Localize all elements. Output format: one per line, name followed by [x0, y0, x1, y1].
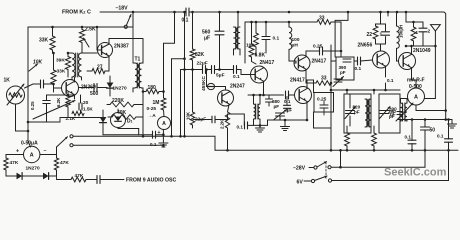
switch S1 to -18V [127, 15, 132, 26]
wire IF2 top [253, 95, 255, 104]
rheostat 1K arrow [7, 84, 24, 105]
transformer output [401, 103, 403, 121]
ground detector [284, 120, 286, 126]
wire bias top [47, 94, 75, 96]
capacitor 0.25 first [320, 47, 323, 55]
transformer IF2 [254, 104, 256, 119]
svg-text:50: 50 [430, 128, 436, 134]
transistor Q3 2N417 [251, 66, 268, 83]
svg-text:1.5K: 1.5K [83, 107, 93, 112]
wire 47k to cap [86, 179, 97, 181]
transistor Q5 2N247 [218, 90, 234, 106]
wire shield box IF1 [245, 22, 289, 63]
wire IF2 bottom [253, 119, 255, 125]
svg-text:0.1: 0.1 [405, 135, 412, 140]
svg-text:pF: pF [274, 104, 280, 109]
wire vertical x313 [313, 80, 315, 93]
wire box 0.25 shield [314, 93, 334, 113]
capacitor 0.1 IF coupling [234, 66, 237, 74]
transistor Q2 2N369 [62, 80, 79, 97]
svg-text:33K: 33K [57, 69, 66, 75]
ground IF2 bottom [259, 125, 261, 127]
svg-text:5μF: 5μF [216, 73, 225, 79]
svg-text:pF: pF [354, 110, 360, 115]
wire 2N387 base feed [97, 27, 102, 50]
antenna [431, 25, 441, 31]
wire Q8 collector [406, 46, 412, 55]
capacitor 0.1 detector [245, 122, 248, 129]
svg-text:220K: 220K [112, 98, 124, 104]
capacitor 2 [419, 28, 427, 32]
capacitor 390pF first [343, 59, 351, 62]
svg-text:22μF: 22μF [197, 61, 208, 67]
wire x425 down [424, 150, 426, 167]
wiper arrow of 2.5K [84, 38, 90, 47]
svg-text:180: 180 [148, 85, 157, 91]
svg-text:1N270: 1N270 [26, 166, 40, 172]
transformer IF3 [365, 99, 369, 127]
wire feed 174.5 to 180 node [164, 12, 175, 92]
resistor 6.8K [249, 44, 254, 57]
svg-text:10K: 10K [33, 60, 43, 66]
resistor 6.2K [66, 96, 70, 107]
svg-text:500: 500 [90, 91, 99, 97]
wire can feed A [335, 12, 348, 57]
capacitor 560uF [219, 12, 221, 31]
svg-text:A: A [162, 121, 166, 127]
wire shelf y22 right [289, 21, 317, 23]
svg-text:+: + [16, 149, 19, 155]
wire x331 to caps [331, 60, 336, 62]
svg-text:0.25: 0.25 [30, 101, 35, 110]
wire 6V to right [332, 150, 449, 180]
trimmer below 390 box [334, 79, 342, 82]
svg-text:10K: 10K [186, 111, 191, 120]
wire Q7 emitter [385, 66, 387, 77]
svg-text:2N387: 2N387 [114, 44, 129, 50]
wiper arrow 10K [29, 64, 38, 71]
svg-text:47K: 47K [75, 173, 84, 179]
wire 2N369 emitter [74, 95, 76, 99]
wire meter M2 bottom [416, 105, 446, 111]
wire r1 loop [406, 22, 414, 27]
capacitor 0.1 to Q7 [358, 57, 361, 65]
capacitor osc coupling [41, 80, 44, 88]
wire bias cluster bottom [28, 118, 103, 123]
wire Q4 base [294, 61, 296, 63]
diode 1N270 first [107, 83, 114, 89]
wire detector link [228, 114, 245, 125]
wire detector lower [248, 124, 268, 126]
diode 1N270 left [17, 173, 23, 180]
svg-text:2N656: 2N656 [358, 43, 373, 49]
svg-text:20: 20 [83, 100, 89, 106]
wire Q5 emitter [228, 105, 230, 113]
svg-text:39K: 39K [56, 58, 65, 64]
svg-text:82K: 82K [195, 52, 205, 58]
wire Q4 collector [306, 51, 320, 57]
wire vertical x331 [330, 45, 332, 150]
capacitor 50 [424, 120, 426, 127]
switch 6V [304, 180, 311, 182]
capacitor 22uF coupling [203, 66, 206, 74]
trimmer capacitor detector [276, 113, 285, 116]
wire switch row 1 [73, 136, 215, 150]
ground under meter [162, 135, 164, 143]
svg-text:2N417: 2N417 [312, 59, 327, 65]
wire Q7 collector [380, 44, 382, 51]
svg-text:2N417: 2N417 [290, 78, 305, 84]
trimmer 820pF [346, 111, 355, 114]
svg-text:6V: 6V [297, 180, 304, 186]
resistor 33 top [317, 20, 331, 25]
resistor 82K [190, 49, 195, 60]
meter M3 0-50uA [24, 146, 40, 162]
wire 2N369 base [54, 87, 62, 89]
capacitor 680pF [266, 99, 273, 102]
resistor 220K [110, 102, 134, 107]
resistor 1M [161, 98, 166, 110]
svg-text:0.25: 0.25 [313, 44, 323, 50]
wire ground bus [215, 149, 458, 151]
svg-text:2.5K: 2.5K [85, 27, 96, 33]
wire box 820 [344, 94, 371, 133]
wire meter M3 left [6, 155, 24, 159]
resistor 100 [254, 33, 259, 47]
wire feed 171.5 branch [172, 59, 185, 137]
capacitor series Q6 base [286, 91, 289, 99]
wire top supply bus [100, 11, 186, 13]
svg-text:6.8K: 6.8K [255, 53, 266, 59]
wire -28V vertical [340, 150, 342, 167]
transformer T osc [72, 53, 75, 77]
svg-text:1K: 1K [4, 78, 11, 84]
svg-text:27: 27 [97, 65, 103, 71]
svg-text:0.1: 0.1 [150, 142, 157, 147]
svg-text:2.1K: 2.1K [66, 116, 76, 121]
wire Q6 emitter [306, 102, 308, 121]
diode 1N270 right [43, 173, 49, 180]
wiper arrow 1.5K pot [33, 101, 75, 120]
inductor 100uH first [289, 27, 292, 49]
svg-text:FROM 9 AUDIO OSC: FROM 9 AUDIO OSC [126, 178, 176, 184]
svg-text:0.1: 0.1 [437, 134, 444, 139]
capacitor 0.1 IF1 [262, 37, 270, 40]
transistor Q1 2N387 [98, 43, 113, 58]
svg-text:2N1049: 2N1049 [413, 48, 431, 54]
svg-text:0-25: 0-25 [147, 106, 157, 112]
svg-text:0.1: 0.1 [355, 66, 362, 72]
svg-text:2N247: 2N247 [230, 83, 245, 89]
wire -28V to junction [331, 166, 425, 168]
svg-text:6.2K: 6.2K [56, 97, 61, 107]
wire 22 cap loop [375, 24, 377, 26]
wire IF input bus [181, 69, 203, 71]
wire bottom right bus [398, 119, 452, 121]
capacitor 20 [79, 103, 82, 110]
resistor 39K [65, 57, 70, 70]
wire vertical feed x184.5 [184, 12, 186, 136]
ground right end [451, 120, 453, 124]
wire Q8 emitter [412, 68, 417, 89]
capacitor 500 [94, 84, 97, 92]
svg-text:0-50μA: 0-50μA [21, 140, 38, 146]
svg-text:→A: →A [148, 113, 157, 119]
node junction dots on top bus [132, 11, 135, 14]
wire vertical feed x180.5 [180, 70, 182, 137]
capacitor audio in [97, 176, 100, 184]
wire box 390 first [336, 57, 354, 80]
wire meter M3 right [40, 155, 57, 159]
svg-text:2N369: 2N369 [81, 85, 96, 91]
wire choke to Q4 base [289, 60, 296, 62]
svg-text:1N270: 1N270 [113, 86, 127, 92]
transformer IF1 [234, 27, 237, 49]
wire mid verticals [346, 90, 348, 94]
svg-text:μH: μH [292, 43, 299, 49]
transistor Q6 2N417 [295, 87, 312, 104]
meter M1 0-25 A [158, 117, 171, 130]
svg-text:0.1: 0.1 [233, 74, 240, 80]
wire 2N369 collector [74, 77, 76, 82]
wire bottom mid link [314, 127, 332, 129]
svg-text:0.1: 0.1 [182, 18, 189, 24]
wire gang dashed [325, 162, 327, 179]
svg-text:1: 1 [416, 30, 419, 35]
wire output transformer top [401, 99, 408, 104]
resistor 33K first [50, 36, 55, 50]
resistor 2.5K [79, 30, 84, 43]
capacitor 22uF second [212, 116, 215, 123]
resistor emitter left [345, 133, 350, 146]
capacitor uF small [284, 105, 291, 108]
meter M2 RF [408, 88, 425, 105]
svg-text:–28V: –28V [293, 166, 306, 172]
wire Q3 emitter [263, 82, 265, 96]
svg-text:33: 33 [319, 16, 325, 22]
transistor Q8 2N1049 [399, 53, 416, 70]
wire box 390 second [379, 94, 400, 133]
wire 2N387 emitter [108, 56, 110, 71]
svg-text:mA R-F: mA R-F [407, 78, 425, 84]
svg-text:2.2K: 2.2K [220, 119, 225, 129]
wire Q7 emitter down [385, 83, 387, 90]
svg-text:2N417: 2N417 [260, 60, 275, 66]
switch S2 meter [57, 137, 68, 147]
svg-text:pF: pF [340, 70, 346, 75]
svg-text:–: – [44, 148, 47, 154]
svg-text:SeekIC.com: SeekIC.com [384, 167, 447, 179]
wire Q4 emitter [305, 70, 307, 78]
wire output transformer bottom [400, 120, 402, 122]
wire node bus2 right segment [104, 26, 133, 28]
svg-text:47K: 47K [60, 160, 69, 166]
capacitor electrolytic under meter [153, 131, 156, 138]
wire left frame bus [28, 27, 104, 147]
svg-text:33: 33 [321, 76, 327, 82]
resistor 2.2K [225, 112, 229, 128]
resistor 10K vertical [190, 112, 194, 125]
resistor 27 [92, 68, 105, 73]
svg-text:0.25: 0.25 [317, 97, 327, 103]
resistor 33K second [51, 70, 56, 84]
resistor emitter right [372, 133, 377, 146]
capacitor 0.1 bottom b [448, 120, 450, 140]
wire det base bus [248, 94, 284, 96]
svg-text:100: 100 [292, 37, 300, 43]
resistor 1 [411, 27, 416, 41]
svg-text:FROM K2 C: FROM K2 C [62, 10, 91, 16]
svg-text:pF: pF [390, 112, 396, 117]
diode D1 circled [111, 113, 126, 128]
svg-text:–18V: –18V [116, 6, 129, 12]
capacitor C 0.1 on top bus [186, 8, 189, 16]
wire 2N387 collector [109, 39, 143, 45]
wire audio bus y90 [331, 89, 400, 91]
resistor 40K [112, 115, 136, 120]
svg-text:0.1: 0.1 [237, 125, 244, 130]
diode D second [100, 117, 107, 123]
svg-text:1M: 1M [153, 100, 160, 106]
capacitor 390pF third [397, 112, 403, 115]
svg-text:47K: 47K [10, 160, 19, 166]
trimmer 390 second [380, 111, 389, 114]
capacitor 1 parallel [382, 32, 390, 35]
resistor 47K third [71, 177, 86, 182]
resistor 180 [146, 89, 159, 93]
wire 220K ends [107, 104, 110, 106]
svg-text:100μH: 100μH [399, 25, 404, 38]
resonator 455KC [207, 83, 214, 89]
resistor 22 [373, 26, 378, 39]
svg-text:22: 22 [367, 32, 373, 38]
wire Q6 collector [307, 80, 314, 89]
svg-text:T1: T1 [135, 57, 141, 63]
switch -28V [309, 167, 314, 169]
svg-text:μF: μF [204, 36, 210, 42]
wire Q3 base [251, 74, 256, 76]
svg-text:1: 1 [380, 32, 383, 38]
rheostat 1K [7, 86, 25, 104]
inductor 100uH second [397, 26, 400, 48]
resistor 47K first [4, 158, 8, 170]
resistor 47K second [54, 158, 58, 170]
svg-text:A: A [30, 153, 34, 159]
transistor Q7 2N656 [373, 51, 390, 68]
capacitor 0.1 bottom a [411, 120, 413, 141]
svg-text:A: A [414, 95, 418, 101]
svg-text:2: 2 [428, 29, 431, 35]
capacitor 5uF coupling [212, 66, 215, 74]
wire shelf corner down [331, 22, 341, 57]
transistor Q4 2N417 [294, 55, 310, 71]
resistor 33 second [316, 81, 331, 85]
resistor 1.5K [72, 111, 84, 115]
svg-text:0.1: 0.1 [273, 36, 280, 42]
wire switch row 2 [73, 144, 163, 146]
svg-text:0.1: 0.1 [387, 78, 394, 83]
svg-text:33K: 33K [39, 38, 49, 44]
svg-text:μF: μF [287, 108, 293, 113]
